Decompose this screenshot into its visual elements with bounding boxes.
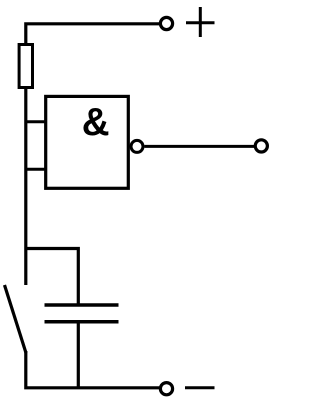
label minus [185, 386, 215, 389]
NAND gate body [46, 96, 129, 188]
switch blade [5, 285, 27, 353]
terminal minus [160, 383, 172, 395]
output inversion bubble [131, 140, 143, 152]
label + [186, 7, 215, 37]
terminal plus [160, 17, 172, 29]
resistor [19, 45, 32, 88]
wire bottom rail [26, 351, 160, 388]
wire top supply rail [26, 24, 160, 45]
wire output [145, 145, 255, 148]
capacitor top plate [45, 303, 119, 307]
wire main vertical [24, 88, 27, 286]
svg-text:&: & [82, 101, 110, 144]
terminal output [255, 140, 267, 152]
wire capacitor bottom lead [77, 322, 80, 388]
wire capacitor branch [26, 249, 79, 304]
wire gate input stub upper [26, 120, 46, 123]
wire gate input stub lower [26, 168, 46, 171]
capacitor bottom plate [45, 320, 119, 324]
